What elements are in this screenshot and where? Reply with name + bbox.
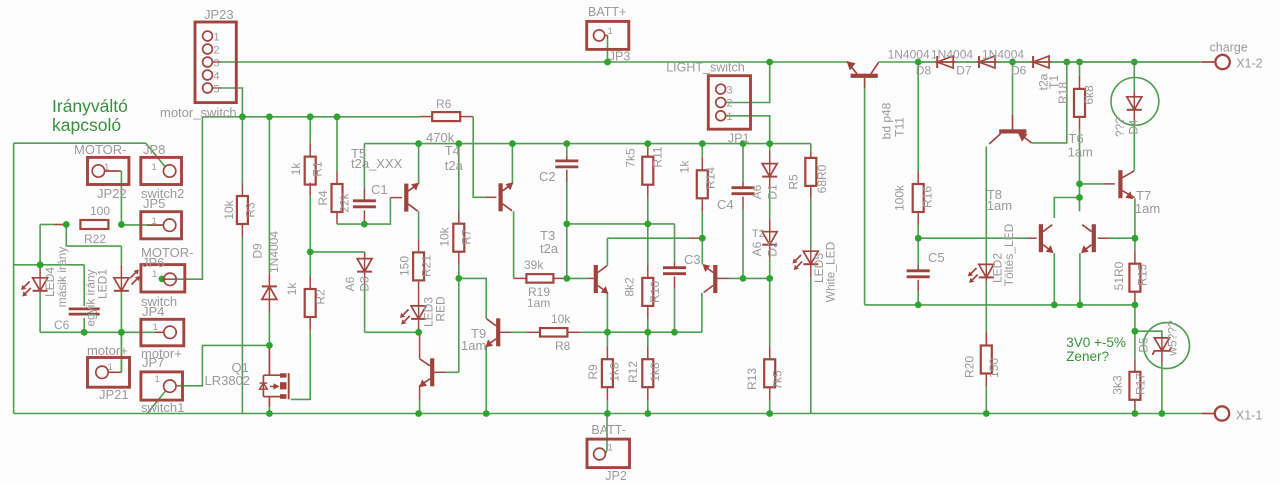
- svg-text:D5: D5: [1137, 337, 1151, 353]
- svg-text:JP23: JP23: [204, 7, 234, 22]
- svg-text:1am: 1am: [1068, 145, 1093, 160]
- svg-text:1: 1: [108, 362, 113, 373]
- svg-text:6k8: 6k8: [1082, 85, 1096, 105]
- svg-text:motor+: motor+: [87, 343, 128, 358]
- svg-text:R8: R8: [555, 339, 571, 353]
- svg-text:LR3802: LR3802: [205, 373, 251, 388]
- svg-text:1N4004: 1N4004: [982, 47, 1024, 61]
- svg-text:1: 1: [153, 322, 158, 333]
- svg-text:JP1: JP1: [728, 132, 750, 146]
- svg-text:Töltés_LED: Töltés_LED: [1002, 223, 1016, 286]
- svg-text:BATT-: BATT-: [591, 423, 626, 437]
- svg-text:D6: D6: [1011, 63, 1027, 77]
- svg-text:100k: 100k: [893, 184, 907, 211]
- svg-text:1N4004: 1N4004: [931, 47, 973, 61]
- svg-text:A6: A6: [343, 276, 357, 291]
- svg-text:22k: 22k: [338, 192, 352, 212]
- svg-text:MOTOR-: MOTOR-: [74, 142, 126, 157]
- svg-text:3k3: 3k3: [1111, 375, 1125, 395]
- svg-text:7k5: 7k5: [771, 370, 785, 390]
- svg-text:Zener?: Zener?: [1066, 349, 1109, 364]
- svg-text:t2a: t2a: [540, 241, 559, 256]
- svg-text:JP22: JP22: [97, 186, 127, 201]
- svg-text:X1-1: X1-1: [1236, 409, 1262, 423]
- svg-text:7k5: 7k5: [624, 148, 638, 168]
- svg-text:3: 3: [727, 84, 733, 96]
- svg-text:1am: 1am: [461, 338, 486, 353]
- svg-text:R3: R3: [244, 202, 258, 218]
- svg-text:10k: 10k: [438, 226, 452, 246]
- svg-text:D7: D7: [956, 63, 972, 77]
- svg-text:R9: R9: [586, 364, 600, 380]
- svg-text:10k: 10k: [222, 199, 236, 219]
- svg-text:???: ???: [1113, 117, 1127, 137]
- svg-text:1: 1: [155, 374, 160, 385]
- svg-text:8k2: 8k2: [623, 277, 637, 297]
- svg-text:JP8: JP8: [143, 142, 165, 157]
- svg-text:2: 2: [214, 45, 220, 57]
- svg-text:R15: R15: [1135, 264, 1149, 286]
- svg-text:R6: R6: [436, 97, 452, 111]
- svg-text:3: 3: [214, 58, 220, 70]
- svg-text:R14: R14: [704, 167, 718, 189]
- svg-text:1am: 1am: [527, 296, 550, 310]
- svg-text:motor_switch: motor_switch: [160, 105, 237, 120]
- svg-text:charge: charge: [1210, 41, 1248, 55]
- svg-text:1: 1: [608, 443, 613, 454]
- svg-text:BATT+: BATT+: [588, 5, 626, 19]
- svg-text:R2: R2: [314, 289, 328, 305]
- svg-text:R16: R16: [921, 186, 935, 208]
- svg-text:D4: D4: [1126, 119, 1140, 135]
- svg-text:1: 1: [608, 26, 613, 37]
- svg-text:2: 2: [727, 98, 733, 110]
- svg-text:LIGHT_switch: LIGHT_switch: [666, 61, 745, 75]
- svg-text:R17: R17: [1134, 373, 1148, 395]
- svg-text:10k: 10k: [551, 312, 571, 326]
- svg-text:RED: RED: [434, 296, 448, 322]
- svg-text:R22: R22: [84, 232, 106, 246]
- svg-text:1N4004: 1N4004: [267, 231, 281, 273]
- svg-text:C3: C3: [684, 252, 701, 267]
- svg-text:LED1: LED1: [96, 269, 110, 299]
- svg-text:68R0: 68R0: [815, 164, 829, 193]
- svg-text:JP4: JP4: [142, 304, 164, 319]
- svg-text:C4: C4: [717, 197, 734, 212]
- svg-text:R7: R7: [460, 229, 474, 245]
- svg-text:1N4004: 1N4004: [888, 47, 930, 61]
- svg-text:T11: T11: [893, 117, 907, 137]
- svg-text:R20: R20: [963, 356, 977, 378]
- svg-text:1: 1: [727, 111, 733, 123]
- svg-text:R1: R1: [311, 161, 325, 177]
- svg-text:R11: R11: [651, 146, 665, 167]
- svg-text:D9: D9: [251, 243, 265, 259]
- svg-text:R12: R12: [626, 361, 640, 383]
- svg-text:másik irány: másik irány: [55, 247, 69, 308]
- svg-text:JP21: JP21: [99, 387, 129, 402]
- svg-text:4: 4: [214, 71, 220, 83]
- svg-text:3V0 +-5%: 3V0 +-5%: [1066, 335, 1126, 350]
- svg-text:D8: D8: [916, 63, 932, 77]
- svg-text:switch1: switch1: [141, 400, 184, 415]
- svg-text:5: 5: [214, 84, 220, 96]
- svg-text:JP7: JP7: [142, 355, 164, 370]
- svg-text:A6: A6: [750, 184, 764, 199]
- svg-text:1: 1: [152, 269, 157, 280]
- svg-text:White_LED: White_LED: [824, 241, 838, 302]
- svg-text:1k: 1k: [678, 160, 692, 174]
- svg-text:1: 1: [104, 162, 109, 173]
- svg-text:150: 150: [398, 256, 412, 276]
- svg-text:JP2: JP2: [605, 469, 627, 483]
- svg-text:t2a: t2a: [445, 158, 464, 173]
- svg-text:Irányváltó: Irányváltó: [52, 96, 128, 116]
- svg-text:w5???: w5???: [1166, 320, 1180, 357]
- svg-text:kapcsoló: kapcsoló: [52, 115, 121, 135]
- svg-text:1k: 1k: [285, 282, 299, 296]
- svg-text:A6: A6: [750, 241, 764, 256]
- svg-text:D3: D3: [358, 276, 372, 292]
- svg-text:1: 1: [152, 162, 157, 173]
- svg-text:T1: T1: [1047, 75, 1061, 89]
- svg-text:R4: R4: [316, 190, 330, 206]
- svg-text:X1-2: X1-2: [1236, 57, 1262, 71]
- svg-text:150: 150: [987, 358, 1001, 378]
- svg-text:bd p48: bd p48: [880, 102, 894, 139]
- svg-text:R10: R10: [648, 281, 662, 303]
- svg-text:1am: 1am: [987, 198, 1012, 213]
- svg-text:1k8: 1k8: [608, 362, 622, 382]
- svg-text:100: 100: [90, 204, 110, 218]
- svg-text:JP5: JP5: [143, 196, 165, 211]
- svg-text:39k: 39k: [524, 258, 544, 272]
- svg-text:1: 1: [214, 32, 220, 44]
- svg-text:R13: R13: [745, 368, 759, 390]
- svg-text:T2: T2: [752, 228, 765, 240]
- svg-text:C1: C1: [371, 182, 388, 197]
- svg-text:1k8: 1k8: [648, 362, 662, 382]
- svg-text:R5: R5: [787, 174, 801, 190]
- svg-text:C2: C2: [539, 169, 556, 184]
- svg-text:51R0: 51R0: [1112, 261, 1126, 290]
- svg-text:D2: D2: [765, 241, 779, 257]
- svg-text:R21: R21: [420, 255, 434, 277]
- svg-text:1am: 1am: [1135, 201, 1160, 216]
- svg-text:JP3: JP3: [609, 50, 631, 64]
- svg-text:D1: D1: [765, 184, 779, 200]
- svg-text:C5: C5: [928, 250, 945, 265]
- svg-text:T4: T4: [445, 143, 460, 158]
- svg-text:1k: 1k: [289, 162, 303, 176]
- svg-text:C6: C6: [54, 318, 70, 332]
- svg-text:1: 1: [152, 216, 157, 227]
- svg-text:JP6: JP6: [142, 255, 164, 270]
- svg-text:t2a_XXX: t2a_XXX: [351, 156, 403, 171]
